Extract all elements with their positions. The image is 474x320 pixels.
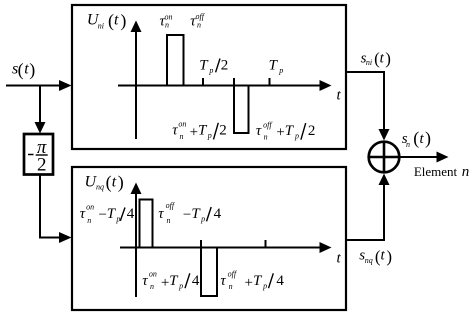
label s_ni(t) [361,49,391,68]
svg-text:τ: τ [220,273,226,289]
bottom plot: vertical axis with up arrow [131,183,142,298]
summer: circle with plus [369,142,400,173]
top plot: positive pulse between tau_on and tau_off [167,35,184,86]
wire: s_nq output from bottom box to summer with arrow [346,174,390,241]
svg-text:p: p [278,66,283,75]
label tau_n^on - Tp/4 (left of positive pulse) [80,202,135,224]
label Element n [414,164,469,180]
svg-text:p: p [200,215,205,224]
svg-text:4: 4 [192,273,200,289]
label tau_n^on + Tp/4 (below bottom axis) [142,270,200,292]
svg-text:(: ( [413,128,419,149]
svg-text:Element: Element [414,164,458,179]
label Tp (top axis) [269,57,284,75]
label U_nq(t) [85,172,124,193]
bottom plot: positive pulse between tau_on-Tp/4 and tau_off-Tp/4 [140,200,153,248]
label tau_n^on (top) [160,12,173,29]
wire: phase shifter output to bottom box with arrow [40,175,72,244]
label U_ni(t) [87,10,127,31]
label s(t) input signal [12,60,35,81]
svg-text:2: 2 [219,123,227,139]
svg-text:τ: τ [158,206,164,222]
label tau_n^off + Tp/4 (below bottom axis) [220,270,284,292]
svg-text:τ: τ [80,206,86,222]
bottom plot: negative pulse between tau_on+Tp/4 and tau_off+Tp/4 [201,240,217,296]
svg-text:p: p [115,215,120,224]
svg-text:τ: τ [172,123,178,139]
svg-text:2: 2 [308,123,316,139]
bottom plot: horizontal time axis with right arrow [120,242,332,253]
svg-text:nq: nq [96,183,104,192]
top plot: negative pulse between tau_on+Tp/2 and tau_off+Tp/2 [234,78,249,133]
top plot: horizontal time axis with right arrow [118,80,332,91]
top plot: tick Tp/2 [202,78,204,86]
svg-text:t: t [112,174,117,191]
top plot: vertical axis with up arrow [131,21,142,140]
svg-text:n: n [462,164,470,180]
svg-text:+: + [276,125,284,141]
svg-text:n: n [406,140,410,149]
svg-text:(: ( [106,172,112,193]
svg-text:p: p [208,66,213,75]
svg-text:n: n [167,216,171,225]
svg-text:): ) [425,128,431,149]
block: I-channel multiplier box (top) [72,5,346,149]
svg-text:): ) [385,49,391,68]
svg-text:n: n [150,282,154,291]
svg-text:2: 2 [221,57,229,73]
wire: s(t) input into top box with arrow [6,80,72,91]
svg-text:2: 2 [37,154,47,175]
label s_nq(t) [359,247,392,266]
top plot: tick Tp [269,78,271,86]
svg-text:−: − [183,207,191,223]
bottom plot: tick right of negative pulse [265,240,267,248]
svg-text:n: n [197,21,201,30]
svg-text:): ) [386,247,392,266]
svg-text:(: ( [18,60,24,81]
wire: branch down from s(t) to phase shifter with arrow [35,85,46,134]
svg-text:): ) [120,10,126,31]
svg-text:p: p [294,131,299,140]
svg-text:n: n [87,216,91,225]
svg-text:+: + [161,275,169,291]
svg-text:−: − [99,207,107,223]
svg-text:on: on [86,202,94,211]
svg-text:): ) [29,60,35,81]
svg-text:on: on [178,119,186,128]
label -pi/2 inside phase shifter [28,138,48,175]
label tau_n^off - Tp/4 (right of positive pulse) [158,201,221,225]
svg-text:nq: nq [365,256,373,265]
svg-text:4: 4 [127,206,135,222]
svg-text:on: on [149,270,157,279]
svg-text:ni: ni [366,58,372,67]
label s_n(t) [402,128,431,149]
wire: s_ni output from top box to summer with arrow [346,72,390,141]
svg-text:p: p [178,282,183,291]
label tau_n^off (top) [190,12,205,30]
svg-text:n: n [229,282,233,291]
svg-text:p: p [262,282,267,291]
svg-text:n: n [180,132,184,141]
block: -pi/2 phase shifter [24,134,53,175]
label Tp/2 (top axis) [199,57,228,75]
label tau_n^on + Tp/2 (below top axis) [172,119,227,141]
svg-text:τ: τ [142,273,148,289]
svg-text:p: p [207,131,212,140]
svg-text:): ) [118,172,124,193]
svg-text:ni: ni [98,22,104,31]
block: Q-channel multiplier box (bottom) [72,167,346,310]
svg-text:n: n [165,21,169,30]
svg-text:t: t [114,12,119,29]
wire: summer output s_n(t) with arrow [399,152,449,163]
svg-text:4: 4 [276,273,284,289]
svg-text:4: 4 [214,206,222,222]
svg-text:+: + [244,275,252,291]
svg-text:(: ( [108,10,114,31]
svg-text:+: + [190,124,198,140]
svg-text:n: n [264,132,268,141]
label tau_n^off + Tp/2 (below top axis) [256,120,316,141]
svg-text:τ: τ [256,123,262,139]
